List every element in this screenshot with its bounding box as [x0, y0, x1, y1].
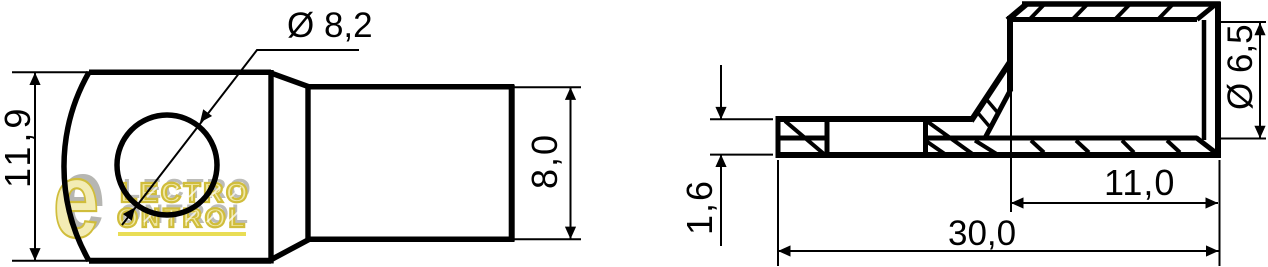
dim 30,0 right arrowhead — [1206, 245, 1219, 256]
right view: outer bend diagonal — [971, 62, 1010, 121]
right view: tongue left section hatch — [785, 121, 824, 154]
right view: hole right edge vertical — [923, 117, 928, 158]
dim 11,0 extension line left — [1010, 92, 1012, 212]
left view: lug body right edge — [268, 70, 273, 264]
dim 8,0 dimension line — [570, 87, 572, 239]
right view: tongue right section hatch long — [928, 122, 974, 155]
dim 30,0 extension line right — [1219, 160, 1221, 266]
right view: inner bottom line from hole to barrel — [925, 136, 1197, 141]
left view: transition bottom diagonal — [269, 239, 309, 260]
right view: bend hatch tick 2 — [978, 113, 989, 126]
left view: lug body top edge — [89, 70, 271, 76]
left view: transition top diagonal — [269, 72, 309, 87]
dim 8,0 extension line bottom — [514, 238, 581, 240]
right view: bend hatch tick 1 — [987, 100, 998, 113]
leader line for hole diameter — [122, 50, 359, 225]
svg-text:8,0: 8,0 — [524, 133, 565, 189]
dim 11,9 extension line top — [12, 71, 95, 73]
leader arrowhead at circle upper-right — [200, 109, 212, 122]
logo chisel slashes ONTROL — [123, 212, 238, 222]
right view: bottom wall hatch 4 — [1167, 141, 1180, 153]
dim Ø6,5 top arrowhead — [1254, 23, 1265, 36]
dim 30,0 left arrowhead — [778, 245, 791, 256]
dim 30,0 extension line left — [777, 160, 779, 266]
logo chisel slashes LECTRO — [126, 187, 241, 197]
right view: barrel top-left chamfer — [1008, 5, 1027, 21]
svg-text:30,0: 30,0 — [948, 214, 1016, 253]
dim 11,9 dimension line — [34, 72, 36, 260]
right view: barrel right outer edge — [1215, 2, 1221, 159]
dim 11,0 dimension line — [1011, 202, 1218, 204]
logo underline — [118, 232, 246, 236]
dim Ø6,5 dimension line — [1259, 23, 1261, 139]
dim 1,6 dimension line upper — [720, 65, 722, 119]
svg-text:11,0: 11,0 — [1104, 162, 1175, 203]
dim 8,0 top arrowhead — [565, 87, 576, 100]
left view: barrel end (right) edge — [509, 85, 515, 242]
left view: lug body bottom edge — [89, 258, 271, 264]
dim Ø6,5 bottom arrowhead — [1254, 126, 1265, 139]
dim 8,0 extension line top — [514, 86, 581, 88]
dim 1,6 extension line bottom — [710, 154, 773, 156]
right view: top wall hatch 2 — [1072, 5, 1088, 21]
watermark logo electrocontrol — [53, 136, 253, 261]
right view: barrel inner top line — [1013, 17, 1197, 22]
left view: lug body left arc — [64, 72, 89, 260]
dim 1,6 upper arrowhead (points down) — [715, 107, 726, 120]
dim 11,9 top arrowhead — [29, 73, 40, 86]
svg-text:e: e — [53, 141, 99, 261]
left view: barrel bottom edge — [308, 236, 514, 242]
dim 11,9 extension line bottom — [12, 260, 95, 262]
dim 1,6 lower arrowhead (points up) — [715, 155, 726, 168]
right view: tongue mid line left section — [778, 136, 827, 141]
svg-text:1,6: 1,6 — [679, 179, 720, 235]
dim 11,0 left arrowhead — [1011, 197, 1024, 208]
right view: top wall hatch 3 — [1114, 5, 1130, 21]
svg-text:11,9: 11,9 — [0, 105, 38, 188]
dim 8,0 bottom arrowhead — [565, 227, 576, 240]
leader arrowhead at circle lower-left — [123, 208, 135, 221]
left view: hole circle — [117, 115, 217, 215]
right view: tongue top edge — [776, 116, 972, 122]
left view: barrel start vertical line — [305, 86, 310, 240]
right view: barrel top-right chamfer — [1197, 4, 1216, 20]
right view: barrel bottom-right chamfer — [1196, 138, 1216, 153]
right view: bottom wall hatch 1 — [1031, 141, 1044, 153]
svg-text:Ø 6,5: Ø 6,5 — [1221, 24, 1260, 110]
right view: hatch under bend — [975, 141, 999, 156]
right view: inner bend diagonal — [985, 89, 1011, 138]
right view: hole left edge vertical — [825, 117, 830, 158]
right view: top wall hatch 4 — [1157, 5, 1173, 21]
dim 11,0 right arrowhead — [1206, 197, 1219, 208]
dim 1,6 extension line top — [710, 118, 773, 120]
dim Ø6,5 extension line top — [1221, 21, 1266, 23]
dim 30,0 dimension line — [778, 250, 1219, 252]
dim 11,9 bottom arrowhead — [29, 248, 40, 261]
left view: barrel top edge — [308, 84, 514, 90]
right view: bottom wall hatch 2 — [1076, 141, 1089, 153]
right view: barrel right inner wall line — [1202, 20, 1207, 140]
right view: bottom outer edge (tongue + barrel) — [776, 152, 1220, 158]
right view: barrel outer top edge — [1022, 1, 1220, 7]
svg-text:Ø 8,2: Ø 8,2 — [287, 6, 373, 45]
right view: bottom wall hatch 3 — [1122, 141, 1134, 153]
right view: barrel left wall vertical — [1007, 16, 1013, 91]
right view: tongue left end cap — [776, 116, 781, 158]
dim Ø6,5 extension line bottom — [1221, 138, 1266, 140]
right view: tongue right section hatch short — [926, 141, 947, 156]
dim 1,6 dimension line lower — [720, 155, 722, 246]
right view: top wall hatch 1 — [1029, 5, 1045, 21]
